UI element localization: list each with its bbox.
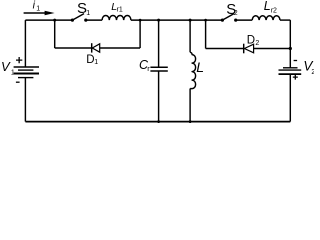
node junction dot L on top rail (189, 19, 192, 22)
wire D1 loop left vertical (54, 20, 56, 48)
wire top rail segment 2 (86, 19, 102, 21)
wire V1 branch top (24, 20, 26, 67)
wire D1 loop bottom left (55, 47, 92, 49)
inductor Lr1 (102, 15, 131, 20)
svg-text:D: D (247, 35, 255, 47)
battery V1 long plate 1 (14, 66, 39, 68)
current arrow i1 head (45, 11, 55, 15)
inductor Lr2 (252, 16, 280, 20)
svg-text:1: 1 (86, 10, 90, 17)
capacitor Cr top plate (150, 66, 167, 68)
wire Cr branch bottom (158, 71, 160, 122)
wire top rail segment 5 (280, 19, 290, 21)
diode D1 cathode bar (91, 43, 93, 52)
capacitor Cr bottom plate (150, 70, 167, 72)
current arrow i1 (24, 12, 46, 14)
wire L branch top (189, 20, 191, 52)
wire Cr branch top (158, 20, 160, 67)
svg-text:2: 2 (311, 69, 314, 76)
wire D2 loop bottom left (206, 48, 244, 50)
wire D1 loop bottom right (100, 47, 140, 49)
node junction dot Cr on bottom rail (157, 120, 160, 123)
node S2 left contact (221, 19, 224, 22)
node S1 right contact (84, 19, 87, 22)
wire V2 branch bottom (289, 74, 291, 122)
wire L branch bottom (189, 89, 191, 122)
switch S2 lever (222, 14, 234, 21)
svg-text:1: 1 (36, 5, 40, 12)
node S2 right contact (234, 19, 237, 22)
V2 minus sign (294, 60, 298, 62)
node junction dot D1 left on top rail (53, 19, 56, 22)
svg-text:L: L (196, 59, 204, 75)
battery V2 long plate upper (279, 69, 302, 71)
wire D1 loop right vertical (139, 20, 141, 48)
V1 minus sign (16, 81, 20, 83)
svg-text:L: L (264, 0, 271, 13)
wire top rail segment 3 (131, 19, 223, 21)
battery V1 short plate 2 (18, 77, 33, 79)
svg-text:D: D (86, 54, 94, 66)
node junction dot L on bottom rail (189, 120, 192, 123)
wire D2 loop left vertical (205, 20, 207, 48)
svg-text:1: 1 (11, 70, 15, 77)
V2 plus sign (293, 75, 298, 80)
inductor L coil (190, 52, 196, 88)
V1 plus sign (16, 57, 22, 63)
node junction dot D2 left on top rail (204, 19, 207, 22)
node junction dot D1 right on top rail (139, 19, 142, 22)
wire top rail segment 1 (25, 19, 72, 21)
svg-text:V: V (1, 59, 11, 74)
wire top rail segment 4 (236, 19, 253, 21)
svg-text:2: 2 (234, 10, 238, 17)
svg-text:2: 2 (255, 40, 259, 47)
wire V1 branch bottom (24, 78, 26, 122)
diode D2 cathode bar (243, 44, 245, 54)
battery V1 short plate 1 (18, 69, 33, 71)
switch S1 lever (72, 14, 84, 21)
svg-text:r1: r1 (117, 7, 123, 14)
diode D2 triangle (244, 44, 253, 53)
diode D1 triangle (92, 44, 99, 52)
node S1 left contact (71, 19, 74, 22)
wire bottom rail (25, 121, 290, 123)
battery V2 long plate lower (279, 73, 302, 75)
wire V2 branch top (289, 20, 291, 68)
battery V1 long plate 2 (14, 73, 39, 75)
svg-text:r2: r2 (271, 7, 277, 14)
node junction dot Cr on top rail (157, 19, 160, 22)
node junction dot D2 loop at V2 branch (289, 47, 292, 50)
svg-text:1: 1 (94, 59, 98, 66)
battery V2 short plate (283, 67, 298, 69)
wire D2 loop bottom right (254, 48, 291, 50)
